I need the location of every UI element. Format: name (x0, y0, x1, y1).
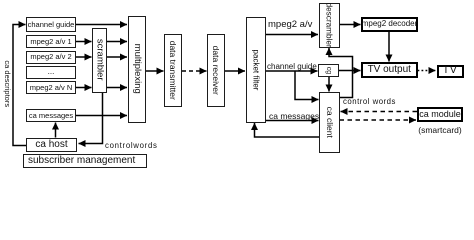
wire mpeg2 a/v N to scrambler (76, 87, 92, 89)
wire channel guide to multiplexing (76, 24, 127, 26)
label smartcard (417, 126, 463, 135)
wire ca messages to multiplexing (76, 115, 127, 117)
box data receiver (207, 34, 225, 107)
wire mpeg2 decoder to TV output (388, 32, 390, 62)
wire cg to TV output (339, 70, 361, 72)
wire ca client to packet filter bottom (255, 123, 320, 137)
wire scrambler to multiplexing 1 (107, 41, 127, 43)
box ca messages (26, 109, 76, 123)
box mpeg2 a/v 2 (26, 51, 76, 64)
wire channel guide branch to ca client (295, 71, 319, 100)
box descrambler (319, 3, 340, 48)
wire scrambler to multiplexing 2 (107, 56, 127, 58)
wire data receiver to packet filter (225, 70, 245, 72)
box mpeg2 decoder (361, 17, 418, 32)
wire dashed ca client to ca module (340, 119, 417, 121)
wire packet filter to descrambler (mpeg2 a/v) (266, 34, 319, 36)
box mpeg2 a/v 1 (26, 35, 76, 48)
wire dashed ca module to ca client (control words) (341, 111, 418, 113)
wire ca host up to ca messages (55, 123, 57, 138)
wire control words scrambler to ca host (79, 93, 103, 144)
wire data transmitter to data receiver (dashed channel) (182, 70, 207, 72)
label controlwords (left) (105, 142, 158, 150)
label ca descriptors (vertical) (3, 49, 11, 119)
wire dotted TV output to TV (418, 70, 436, 72)
wire packet filter to cg (channel guide) (266, 70, 318, 72)
label control words (right) (343, 98, 396, 106)
box TV (437, 65, 465, 78)
box cg (318, 64, 339, 78)
wire layer (0, 0, 474, 178)
box mpeg2 a/v N (26, 81, 76, 94)
box ca host (26, 138, 77, 153)
box ca module (417, 107, 463, 122)
box packet filter (246, 17, 266, 123)
box subscriber management (23, 154, 147, 168)
wire ca descriptors bracket: ca host to channel guide (13, 25, 26, 146)
box multiplexing (128, 16, 147, 123)
wire packet filter to ca client (ca messages) (266, 120, 319, 122)
box ellipsis (26, 66, 76, 79)
wire control words ca client to descrambler (329, 48, 353, 98)
wire mpeg2 a/v 2 to scrambler (76, 56, 92, 58)
wire scrambler to multiplexing 3 (107, 87, 127, 89)
wire descrambler to mpeg2 decoder (340, 24, 361, 26)
box ca client (319, 92, 340, 153)
box scrambler (92, 28, 107, 93)
box data transmitter (164, 34, 182, 107)
wire multiplexing to data transmitter (146, 70, 164, 72)
label ca messages (269, 112, 319, 121)
wire cg down to ca client (328, 77, 330, 92)
label channel guide (267, 63, 317, 71)
wire mpeg2 a/v 1 to scrambler (76, 41, 92, 43)
label mpeg2 a/v (268, 20, 312, 30)
box TV output (361, 62, 418, 78)
box channel guide (26, 17, 76, 32)
